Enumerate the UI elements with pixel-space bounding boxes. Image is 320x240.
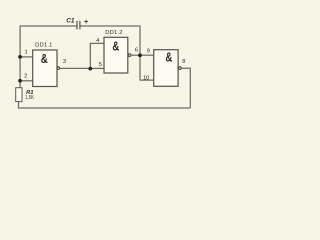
svg-text:2: 2: [24, 74, 27, 80]
output bubble pin 3: [57, 67, 60, 70]
wire node B down to pin 10: [140, 55, 154, 80]
wire output 8 to right rail: [182, 68, 191, 108]
resistor R1: [16, 88, 34, 102]
node junction rail/pin2: [18, 79, 22, 83]
svg-text:5: 5: [99, 62, 102, 68]
svg-text:1,5K: 1,5K: [25, 95, 34, 101]
svg-text:6: 6: [135, 48, 138, 54]
svg-text:10: 10: [143, 75, 149, 81]
svg-text:3: 3: [63, 59, 66, 65]
wire pin 1: [20, 56, 33, 58]
wire output 3 to node A: [60, 67, 91, 69]
wire: top net, C1 to right corner down to node B: [81, 26, 141, 55]
svg-text:&: &: [41, 51, 48, 66]
svg-text:C1: C1: [66, 17, 75, 24]
svg-text:&: &: [165, 50, 172, 65]
output bubble pin 8: [179, 67, 182, 70]
wire bottom return to R1: [19, 102, 191, 108]
wire node A to pin 5: [90, 67, 104, 69]
gate DD1.2: [96, 30, 138, 73]
svg-text:&: &: [112, 39, 119, 54]
wire pin 2: [20, 80, 33, 82]
svg-text:DD1.2: DD1.2: [105, 30, 123, 36]
output bubble pin 6: [128, 54, 131, 57]
svg-text:9: 9: [147, 48, 150, 54]
svg-text:8: 8: [182, 59, 185, 65]
wire node B to pin 9: [140, 54, 154, 56]
gate DD1.1: [24, 42, 66, 86]
capacitor C1: [66, 17, 88, 29]
node junction rail/pin1: [18, 55, 22, 59]
node B junction: [138, 53, 142, 57]
node A junction: [88, 67, 92, 71]
wire: top net, left segment to C1: [20, 26, 76, 88]
svg-text:DD1.1: DD1.1: [35, 42, 53, 48]
wire output 6 to node B: [131, 54, 140, 56]
gate DD1.3: [143, 48, 185, 86]
wire node A up to pin 4: [90, 43, 104, 68]
svg-text:1: 1: [25, 50, 28, 56]
